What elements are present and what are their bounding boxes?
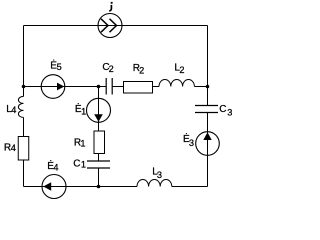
svg-text:2: 2 [109, 64, 114, 74]
label J (j-dot) [109, 2, 112, 11]
svg-text:4: 4 [53, 163, 58, 173]
source E3 arrowhead [203, 132, 211, 140]
svg-text:3: 3 [189, 138, 194, 148]
source E3 circle [196, 132, 220, 156]
svg-text:4: 4 [11, 143, 16, 153]
label L2 [174, 62, 184, 75]
svg-text:C: C [219, 104, 226, 115]
label R4 [4, 143, 16, 154]
capacitor C2 plate left [105, 78, 107, 95]
source E4 arrowhead [43, 182, 51, 191]
wire bottom row right segment [172, 186, 208, 188]
label C1 [73, 159, 86, 170]
resistor R4 box [18, 137, 29, 161]
wire R2 to L2 [153, 86, 160, 88]
wire right vertical upper [207, 26, 209, 106]
wire bottom row left segment [24, 186, 138, 188]
capacitor C3 plate bottom [195, 112, 218, 114]
current source J1 chevron 1 [101, 19, 108, 32]
wire left vertical lower [23, 160, 25, 187]
capacitor C1 plate bottom [87, 167, 110, 169]
label R2 [133, 63, 144, 76]
wire right vertical lower [207, 155, 209, 186]
capacitor C2 plate right [111, 78, 113, 95]
node D junction dot [97, 185, 101, 189]
capacitor C1 plate top [87, 160, 110, 162]
wire L2 to right column [194, 86, 207, 88]
label C2 [102, 62, 113, 74]
label E4 [47, 159, 58, 173]
node C junction dot [206, 85, 210, 89]
svg-text:3: 3 [157, 170, 162, 180]
source E4 circle [42, 175, 66, 199]
source E5 arrowhead [57, 83, 64, 91]
label R1 [74, 137, 86, 148]
resistor R1 box [94, 131, 105, 154]
wire middle row left segment [24, 86, 107, 88]
svg-text:3: 3 [227, 108, 232, 118]
svg-text:1: 1 [80, 138, 85, 148]
label E3 [183, 132, 194, 148]
capacitor C3 plate top [195, 105, 218, 107]
current source J1 chevron 2 [110, 19, 117, 32]
wire left vertical (top corner to node A) [23, 26, 25, 97]
current source J1 circle [98, 14, 122, 38]
inductor L4 coil (vertical) [18, 96, 23, 117]
resistor R2 box [124, 82, 153, 94]
label E1 [75, 102, 86, 117]
wire C1 to bottom row [98, 168, 100, 187]
node A junction dot [22, 85, 26, 89]
wire middle branch top [98, 87, 100, 132]
svg-text:1: 1 [81, 107, 86, 117]
label L3 [152, 166, 162, 180]
inductor L2 coil [159, 80, 194, 87]
wire L4 to R4 [23, 117, 25, 136]
svg-text:5: 5 [57, 62, 62, 72]
source E1 arrowhead [94, 114, 103, 122]
source E1 circle [87, 98, 111, 122]
inductor L3 coil [137, 180, 172, 187]
label E5 [50, 58, 62, 72]
svg-text:1: 1 [81, 160, 86, 170]
node B junction dot [97, 85, 101, 89]
wire R1 to C1 [98, 154, 100, 162]
svg-text:C: C [73, 159, 80, 170]
source E5 circle [41, 75, 65, 99]
svg-text:4: 4 [11, 105, 16, 115]
svg-text:2: 2 [139, 66, 144, 76]
wire C2 to R2 [112, 86, 123, 88]
svg-text:2: 2 [179, 65, 184, 75]
wire top horizontal [24, 25, 208, 27]
wire C3 to E3 [207, 113, 209, 156]
label L4 [6, 104, 16, 115]
label C3 [219, 104, 232, 118]
